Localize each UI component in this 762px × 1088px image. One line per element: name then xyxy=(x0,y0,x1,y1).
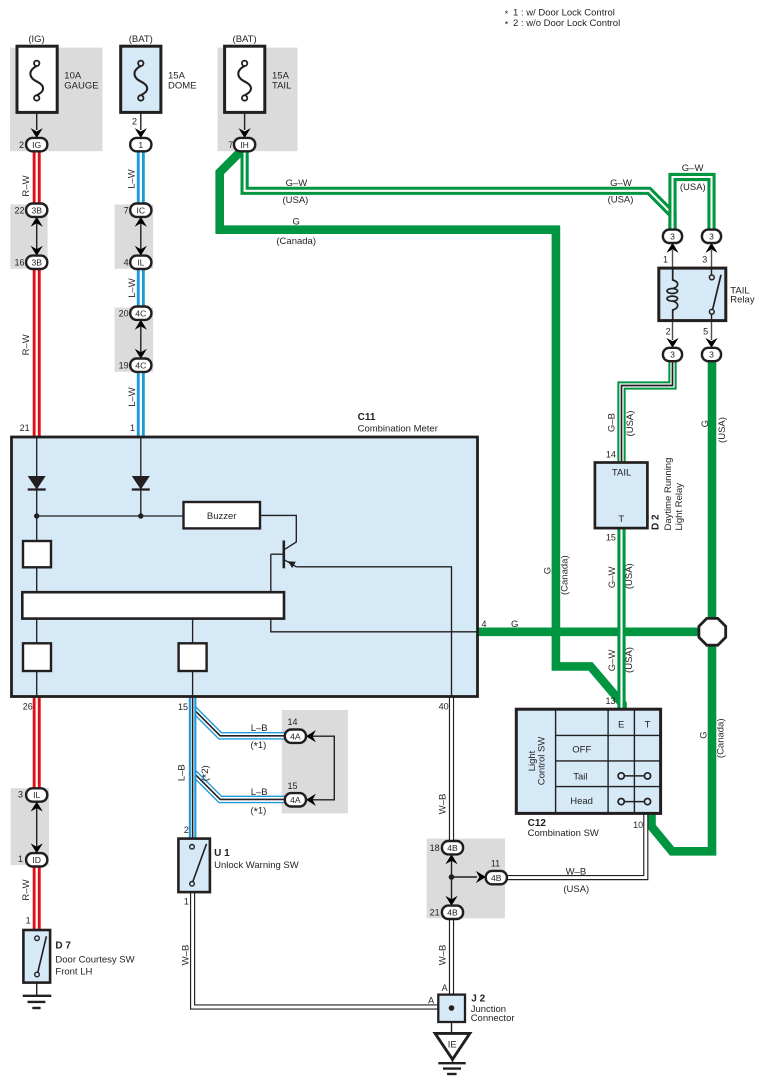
label W-B usa horizontal xyxy=(566,867,587,878)
transistor Q1 xyxy=(271,541,297,569)
pin 7 IC xyxy=(124,205,129,215)
svg-text:(IG): (IG) xyxy=(28,34,44,45)
svg-text:1: 1 xyxy=(663,255,668,265)
svg-text:1: 1 xyxy=(138,140,143,150)
svg-text:Combination Meter: Combination Meter xyxy=(358,423,438,434)
relay pin 1 xyxy=(663,255,668,265)
pin 2 of dome fuse xyxy=(132,117,137,127)
svg-text:(Canada): (Canada) xyxy=(559,555,570,595)
relay pin 5 xyxy=(703,327,708,337)
pin 15 D2 xyxy=(606,532,616,542)
svg-text:(*2): (*2) xyxy=(200,765,213,781)
svg-text:IG: IG xyxy=(32,140,41,150)
label Light Control SW xyxy=(527,737,547,786)
svg-text:G–W: G–W xyxy=(607,566,618,588)
pin 26 C11 xyxy=(23,702,33,712)
svg-text:R–W: R–W xyxy=(21,879,32,900)
svg-text:4: 4 xyxy=(124,257,129,267)
svg-text:*: * xyxy=(505,20,509,30)
pin 10 C12 xyxy=(633,820,643,830)
label (*1) branch2 xyxy=(250,806,266,819)
unlock warning switch U1 box xyxy=(178,839,210,893)
svg-text:Relay: Relay xyxy=(730,295,755,306)
svg-text:G–B: G–B xyxy=(607,413,618,432)
svg-text:IL: IL xyxy=(137,258,144,268)
svg-text:2: 2 xyxy=(132,117,137,127)
pin 18 4B xyxy=(430,843,440,853)
relay pin 5 link and arrow xyxy=(705,321,717,348)
label G canada vertical xyxy=(542,567,553,574)
label W-B 40 column xyxy=(438,794,449,815)
svg-text:21: 21 xyxy=(20,423,30,433)
wire W-B C11 pin 40 to connector 18 4B xyxy=(449,696,454,842)
legend note 2 xyxy=(505,18,620,29)
connector oval 4B pin 18 xyxy=(442,841,463,854)
svg-text:15: 15 xyxy=(287,781,297,791)
label 15A DOME xyxy=(168,71,197,92)
connector oval 3 relay pin 2 xyxy=(663,348,682,361)
connector oval IG pin 2 xyxy=(26,138,47,151)
svg-text:IE: IE xyxy=(448,1040,457,1051)
svg-text:(USA): (USA) xyxy=(608,195,634,206)
octagon splice node xyxy=(699,618,726,645)
svg-text:*: * xyxy=(505,9,509,19)
link and arrows between 4C pair xyxy=(135,320,147,359)
svg-text:4B: 4B xyxy=(447,843,458,853)
svg-text:G: G xyxy=(700,420,711,427)
svg-text:L–W: L–W xyxy=(127,387,138,407)
label 15A TAIL xyxy=(272,71,291,92)
wire buzzer to transistor collector xyxy=(260,515,296,549)
wire transistor emitter to C11 pin 40 xyxy=(296,567,451,696)
svg-text:26: 26 xyxy=(23,702,33,712)
wire W-B connector 21 4B to J2 pin A xyxy=(449,919,454,1008)
daytime running light relay D2 box xyxy=(595,463,648,529)
label (USA) d2 upper xyxy=(624,563,635,589)
svg-text:TAIL: TAIL xyxy=(272,80,291,91)
connector oval 1 xyxy=(130,138,151,151)
label L-B branch2 xyxy=(251,787,268,798)
combination meter C11 box xyxy=(12,437,478,697)
svg-text:L–B: L–B xyxy=(251,787,268,798)
svg-text:(USA): (USA) xyxy=(282,195,308,206)
fuse F2 15A DOME xyxy=(121,46,161,112)
svg-text:GAUGE: GAUGE xyxy=(64,80,98,91)
svg-text:G: G xyxy=(293,217,300,228)
svg-text:C12: C12 xyxy=(528,818,547,829)
label (USA) loop xyxy=(680,182,706,193)
wire bus bar to C11 pin 4 xyxy=(271,619,478,632)
svg-text:TAIL: TAIL xyxy=(612,467,631,478)
svg-text:(USA): (USA) xyxy=(624,647,635,673)
connector oval 4C pin 20 xyxy=(130,307,151,320)
label OFF xyxy=(572,744,591,755)
pin A left J2 xyxy=(428,995,434,1005)
connector oval 4B pin 11 xyxy=(486,871,507,884)
pin 21 C11 xyxy=(20,423,30,433)
C11 pin 21 lead xyxy=(36,437,38,476)
wire G-W D2 pin 15 to C12 pin 13 (USA) xyxy=(617,528,625,710)
svg-text:Head: Head xyxy=(570,796,593,807)
label (Canada) horizontal xyxy=(276,236,316,247)
C12 tail row contacts xyxy=(618,773,651,779)
svg-text:20: 20 xyxy=(119,308,129,318)
label G pin4 wire xyxy=(511,619,518,630)
buzzer box xyxy=(184,502,261,528)
svg-text:3: 3 xyxy=(702,255,707,265)
svg-text:T: T xyxy=(618,514,624,525)
label Light Relay xyxy=(674,483,685,531)
relay switch xyxy=(709,268,721,321)
pin 14 4A xyxy=(287,717,297,727)
label (Canada) below octagon xyxy=(715,718,726,758)
ground below D7 xyxy=(23,996,52,1008)
svg-text:4C: 4C xyxy=(135,360,146,370)
pin 40 C11 xyxy=(439,702,449,712)
label G-W loop top xyxy=(682,163,704,174)
arrow into connector IH xyxy=(239,128,251,138)
svg-text:15: 15 xyxy=(178,702,188,712)
label Head xyxy=(570,796,593,807)
label (USA) relay column xyxy=(717,417,728,443)
pin 7 of IH xyxy=(228,140,233,150)
svg-text:13: 13 xyxy=(605,696,615,706)
svg-text:15: 15 xyxy=(606,532,616,542)
wire L-W fuse F2 to connector IC xyxy=(137,151,145,205)
connector oval IH pin 7 xyxy=(234,138,255,151)
wire W-B U1 pin 1 to J2 pin A xyxy=(193,892,452,1007)
svg-text:(USA): (USA) xyxy=(680,182,706,193)
svg-text:Tail: Tail xyxy=(573,771,587,782)
label TAIL Relay xyxy=(730,285,755,305)
svg-text:4A: 4A xyxy=(290,731,301,741)
svg-text:Daytime Running: Daytime Running xyxy=(663,458,674,531)
svg-text:Connector: Connector xyxy=(471,1013,515,1024)
svg-text:1: 1 xyxy=(18,854,23,864)
wire G-B relay pin 2 connector to D2 pin 14 xyxy=(622,361,673,463)
pin 19 xyxy=(119,360,129,370)
pin 14 D2 xyxy=(606,450,616,460)
svg-text:W–B: W–B xyxy=(438,794,449,815)
resistor bus bar xyxy=(22,592,284,618)
wire G thick TAIL relay pin 5 down through octagon to C12 pin 10 (Canada) xyxy=(652,361,713,852)
label (BAT) dome xyxy=(129,34,153,45)
svg-text:4A: 4A xyxy=(290,795,301,805)
relay coil xyxy=(667,268,678,321)
wire link fuse F1 to arrow xyxy=(36,112,38,130)
pin 11 4B xyxy=(491,859,500,869)
combination switch C12 box xyxy=(516,709,660,813)
svg-text:11: 11 xyxy=(491,859,500,869)
label L-B branch1 xyxy=(251,723,268,734)
svg-text:W–B: W–B xyxy=(438,945,449,966)
wire G-W thin fuse IH to relay pin 1 connector (USA) xyxy=(245,151,673,231)
svg-text:14: 14 xyxy=(606,450,616,460)
wire J2 to IE ground point xyxy=(451,1022,453,1033)
svg-text:A: A xyxy=(442,983,448,993)
svg-text:(USA): (USA) xyxy=(624,563,635,589)
pin 1 D7 xyxy=(26,916,31,926)
label G-B xyxy=(607,413,618,432)
pin 4 IL xyxy=(124,257,129,267)
label T column xyxy=(645,719,651,730)
pin 1 ID xyxy=(18,854,23,864)
svg-text:40: 40 xyxy=(439,702,449,712)
wire L-W connector 4C to C11 pin 1 xyxy=(137,372,145,438)
pin A above J2 xyxy=(442,983,448,993)
label E column xyxy=(618,719,624,730)
legend note 1 xyxy=(505,8,615,19)
svg-text:Combination SW: Combination SW xyxy=(528,828,599,839)
svg-text:4: 4 xyxy=(482,619,487,629)
small square S3 xyxy=(179,619,207,696)
svg-text:R–W: R–W xyxy=(21,334,32,355)
relay pin 3 link and arrow xyxy=(705,243,717,268)
wire G thick from fuse IH (Canada) down to C12 pin 13 xyxy=(220,151,623,710)
label (Canada) vertical xyxy=(559,555,570,595)
label (*2) main xyxy=(200,765,213,781)
svg-text:3: 3 xyxy=(670,232,675,242)
svg-text:W–B: W–B xyxy=(180,945,191,966)
svg-text:3B: 3B xyxy=(31,258,42,268)
pin 16 xyxy=(14,257,24,267)
svg-text:G: G xyxy=(699,731,710,738)
svg-text:G–W: G–W xyxy=(610,178,632,189)
label L-W mid2 xyxy=(127,387,138,407)
C11 pin 1 lead xyxy=(140,437,142,476)
link and arrows between IL-ID pair xyxy=(31,802,43,854)
label G usa relay column xyxy=(700,420,711,427)
label W-B u1 column xyxy=(180,945,191,966)
svg-text:IC: IC xyxy=(137,205,146,215)
svg-text:IH: IH xyxy=(240,140,249,150)
label R-W bottom xyxy=(21,879,32,900)
link and arrows between 3B pair xyxy=(31,217,43,256)
label D 7 xyxy=(55,941,134,978)
wire L-B branch to connector 15 4A xyxy=(193,772,286,800)
svg-text:(BAT): (BAT) xyxy=(233,34,257,45)
wire W-B connector 11 4B to C12 pin 10 (USA) xyxy=(507,813,646,877)
wire R-W connector ID to D7 pin 1 xyxy=(33,866,41,931)
wire D7 to ground xyxy=(36,983,38,996)
door courtesy switch D7 box xyxy=(23,930,50,983)
label (IG) xyxy=(28,34,44,45)
relay pin 3 xyxy=(702,255,707,265)
svg-text:(USA): (USA) xyxy=(625,411,636,437)
relay pin 2 xyxy=(666,327,671,337)
label R-W mid xyxy=(21,334,32,355)
svg-text:1: 1 xyxy=(130,423,135,433)
relay pin 1 link and arrow xyxy=(666,243,678,268)
junction connector J2 box xyxy=(438,995,465,1022)
svg-text:4B: 4B xyxy=(491,873,502,883)
svg-text:Control SW: Control SW xyxy=(536,737,547,786)
label Tail xyxy=(573,771,587,782)
small square S1 xyxy=(23,516,51,592)
label G canada horizontal xyxy=(293,217,300,228)
link 18 4B to 21 4B with junction branch xyxy=(445,854,485,906)
wire L-W connector IL to connector 4C xyxy=(137,268,145,307)
pin 13 C12 xyxy=(605,696,615,706)
svg-text:2: 2 xyxy=(19,140,24,150)
label (USA) first xyxy=(282,195,308,206)
label (USA) G-B xyxy=(625,411,636,437)
label (*1) branch1 xyxy=(250,740,266,753)
wire L-B main C11 pin 15 to U1 pin 2 xyxy=(189,696,197,840)
svg-text:(Canada): (Canada) xyxy=(715,718,726,758)
label 10A GAUGE xyxy=(64,71,98,92)
svg-text:IL: IL xyxy=(33,790,40,800)
svg-text:10: 10 xyxy=(633,820,643,830)
svg-text:3: 3 xyxy=(18,789,23,799)
svg-text:C11: C11 xyxy=(358,412,376,423)
pin 20 xyxy=(119,308,129,318)
label (BAT) tail xyxy=(233,34,257,45)
pin 3 IL xyxy=(18,789,23,799)
connector oval 3 relay pin 5 xyxy=(702,348,721,361)
svg-text:G: G xyxy=(511,619,518,630)
pin 21 4B xyxy=(430,908,440,918)
wire R-W fuse F1 to connector 3B xyxy=(33,151,41,205)
svg-text:L–W: L–W xyxy=(127,278,138,298)
label R-W top xyxy=(21,175,32,196)
TAIL relay box xyxy=(659,268,726,321)
svg-text:Light Relay: Light Relay xyxy=(674,483,685,531)
connector oval 3B pin 16 xyxy=(26,256,47,269)
label D 2 xyxy=(651,514,662,530)
svg-text:(BAT): (BAT) xyxy=(129,34,153,45)
svg-text:Unlock Warning SW: Unlock Warning SW xyxy=(214,860,299,871)
wire G thick C11 pin 4 to octagon splice xyxy=(478,627,713,636)
arrow into connector 1 xyxy=(135,128,147,138)
svg-text:1: 1 xyxy=(184,896,189,906)
svg-text:Door Courtesy SW: Door Courtesy SW xyxy=(55,955,134,966)
pin 4 C11 xyxy=(482,619,487,629)
svg-text:18: 18 xyxy=(430,843,440,853)
svg-text:R–W: R–W xyxy=(21,175,32,196)
svg-text:Front LH: Front LH xyxy=(55,967,92,978)
svg-text:J 2: J 2 xyxy=(471,993,485,1004)
label G-W second xyxy=(610,178,632,189)
label C12 xyxy=(528,818,599,839)
wire R-W connector 3B to C11 pin 21 xyxy=(33,268,41,437)
svg-text:G–W: G–W xyxy=(286,178,308,189)
wire R-W C11 pin 26 to connector IL xyxy=(33,696,41,790)
C12 head row contacts xyxy=(618,799,651,805)
label G below octagon xyxy=(699,731,710,738)
svg-text:14: 14 xyxy=(287,717,297,727)
svg-text:3: 3 xyxy=(709,350,714,360)
label L-W top xyxy=(127,169,138,189)
pin 15 C11 xyxy=(178,702,188,712)
connector oval 4A pin 14 with arrow and loop xyxy=(285,730,335,800)
label (USA) second xyxy=(608,195,634,206)
pin 2 of IG xyxy=(19,140,24,150)
svg-text:W–B: W–B xyxy=(566,867,587,878)
svg-text:E: E xyxy=(618,719,624,730)
svg-text:D 2: D 2 xyxy=(651,514,662,530)
label Daytime Running xyxy=(663,458,674,531)
ground point IE triangle xyxy=(435,1033,470,1059)
connector oval 3 relay pin 1 xyxy=(663,230,682,243)
svg-text:7: 7 xyxy=(228,140,233,150)
svg-text:3B: 3B xyxy=(31,205,42,215)
connector oval IC pin 7 xyxy=(130,204,151,217)
fuse F1 10A GAUGE xyxy=(17,46,57,112)
svg-text:(Canada): (Canada) xyxy=(276,236,316,247)
svg-text:3: 3 xyxy=(709,232,714,242)
svg-text:L–W: L–W xyxy=(127,169,138,189)
svg-text:(*1): (*1) xyxy=(250,806,266,819)
connector oval 3 relay pin 3 xyxy=(702,230,721,243)
svg-text:22: 22 xyxy=(14,205,24,215)
ground below IE xyxy=(438,1059,465,1074)
wire link fuse F2 to arrow xyxy=(140,112,142,130)
label W-B 21 column xyxy=(438,945,449,966)
pin 1 C11 xyxy=(130,423,135,433)
svg-text:19: 19 xyxy=(119,360,129,370)
svg-text:G–W: G–W xyxy=(607,650,618,672)
label L-W mid1 xyxy=(127,278,138,298)
fuse F3 15A TAIL xyxy=(225,46,265,112)
svg-text:4C: 4C xyxy=(135,308,146,318)
label (USA) wb horizontal xyxy=(563,884,589,895)
link and arrows between IC-IL pair xyxy=(135,217,147,256)
svg-text:L–B: L–B xyxy=(176,764,187,781)
label G-W d2 lower xyxy=(607,650,618,672)
svg-text:4B: 4B xyxy=(447,908,458,918)
svg-text:3: 3 xyxy=(670,350,675,360)
svg-text:T: T xyxy=(645,719,651,730)
connector oval ID pin 1 xyxy=(26,853,47,866)
connector oval 4B pin 21 xyxy=(442,906,463,919)
svg-text:1 : w/ Door Lock Control: 1 : w/ Door Lock Control xyxy=(513,8,615,19)
svg-text:G: G xyxy=(542,567,553,574)
svg-text:D 7: D 7 xyxy=(55,941,71,952)
connector oval 3B pin 22 xyxy=(26,204,47,217)
label C11 xyxy=(358,412,438,435)
label (USA) d2 lower xyxy=(624,647,635,673)
wire L-B branch to connector 14 4A xyxy=(193,708,286,736)
connector oval IL pin 3 xyxy=(26,788,47,801)
diode D-right xyxy=(132,476,150,516)
wire G-W loop relay pin1 connector to pin3 connector xyxy=(673,177,712,230)
diode D-left xyxy=(28,476,46,516)
svg-text:2: 2 xyxy=(666,327,671,337)
svg-text:ID: ID xyxy=(32,855,41,865)
svg-text:G–W: G–W xyxy=(682,163,704,174)
wire transistor base to bus bar xyxy=(270,554,272,592)
svg-text:5: 5 xyxy=(703,327,708,337)
small square S2 xyxy=(23,619,51,696)
svg-text:1: 1 xyxy=(26,916,31,926)
arrow into connector IG xyxy=(31,128,43,138)
svg-text:DOME: DOME xyxy=(168,80,197,91)
svg-text:2: 2 xyxy=(184,825,189,835)
svg-text:L–B: L–B xyxy=(251,723,268,734)
label G-W d2 upper xyxy=(607,566,618,588)
svg-text:(*1): (*1) xyxy=(250,740,266,753)
relay pin 2 link and arrow xyxy=(666,321,678,348)
connector oval 4C pin 19 xyxy=(130,359,151,372)
svg-text:U 1: U 1 xyxy=(214,848,230,859)
svg-text:Buzzer: Buzzer xyxy=(207,511,237,522)
wire junction bus to buzzer xyxy=(34,513,184,518)
pin 15 4A xyxy=(287,781,297,791)
svg-text:OFF: OFF xyxy=(572,744,591,755)
pin 2 U1 xyxy=(184,825,189,835)
pin 1 U1 xyxy=(184,896,189,906)
